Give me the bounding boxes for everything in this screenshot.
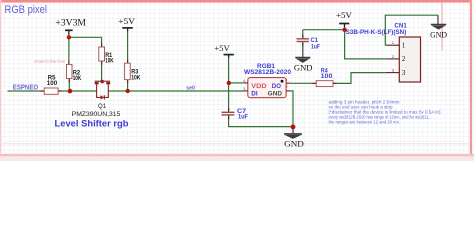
svg-text:1uF: 1uF xyxy=(238,114,248,121)
svg-text:DI: DI xyxy=(251,90,258,97)
svg-text:1: 1 xyxy=(402,43,406,50)
svg-text:+5V: +5V xyxy=(214,43,230,53)
svg-text:VDD: VDD xyxy=(251,83,267,90)
svg-text:WS2812B-2020: WS2812B-2020 xyxy=(244,69,292,76)
svg-text:Q1: Q1 xyxy=(98,103,107,110)
svg-text:1uF: 1uF xyxy=(311,43,320,50)
svg-text:RGB pixel: RGB pixel xyxy=(5,4,48,16)
svg-text:+5V: +5V xyxy=(336,10,353,20)
svg-text:close to the mcu: close to the mcu xyxy=(34,58,65,63)
svg-text:GND: GND xyxy=(284,139,304,149)
svg-text:GND: GND xyxy=(430,29,447,39)
svg-text:GND: GND xyxy=(268,90,283,97)
svg-text:2: 2 xyxy=(286,84,288,89)
svg-text:1: 1 xyxy=(286,77,288,82)
svg-text:the ranges are between 12 and: the ranges are between 12 and 20 mA. xyxy=(329,120,401,125)
svg-text:PMZ390UN,315: PMZ390UN,315 xyxy=(72,111,121,118)
svg-text:+5V: +5V xyxy=(118,16,136,26)
svg-text:Level Shifter rgb: Level Shifter rgb xyxy=(55,118,130,128)
svg-text:10K: 10K xyxy=(105,58,114,65)
svg-text:2: 2 xyxy=(402,56,406,63)
svg-text:DO: DO xyxy=(272,83,281,90)
svg-text:1: 1 xyxy=(392,40,394,45)
svg-text:10K: 10K xyxy=(131,74,140,81)
svg-text:3: 3 xyxy=(243,86,245,91)
svg-text:10K: 10K xyxy=(73,75,82,82)
svg-text:100: 100 xyxy=(47,80,58,87)
svg-text:2: 2 xyxy=(392,54,394,59)
svg-text:100: 100 xyxy=(321,74,334,80)
svg-text:+3V3M: +3V3M xyxy=(55,17,86,27)
svg-text:se0: se0 xyxy=(186,85,195,91)
svg-text:GND: GND xyxy=(294,62,313,72)
svg-text:S3B-PH-K-S(LF)(SN): S3B-PH-K-S(LF)(SN) xyxy=(346,29,407,36)
svg-text:3: 3 xyxy=(392,68,394,73)
svg-text:ESPNEO: ESPNEO xyxy=(13,84,39,91)
svg-text:3: 3 xyxy=(402,70,406,77)
